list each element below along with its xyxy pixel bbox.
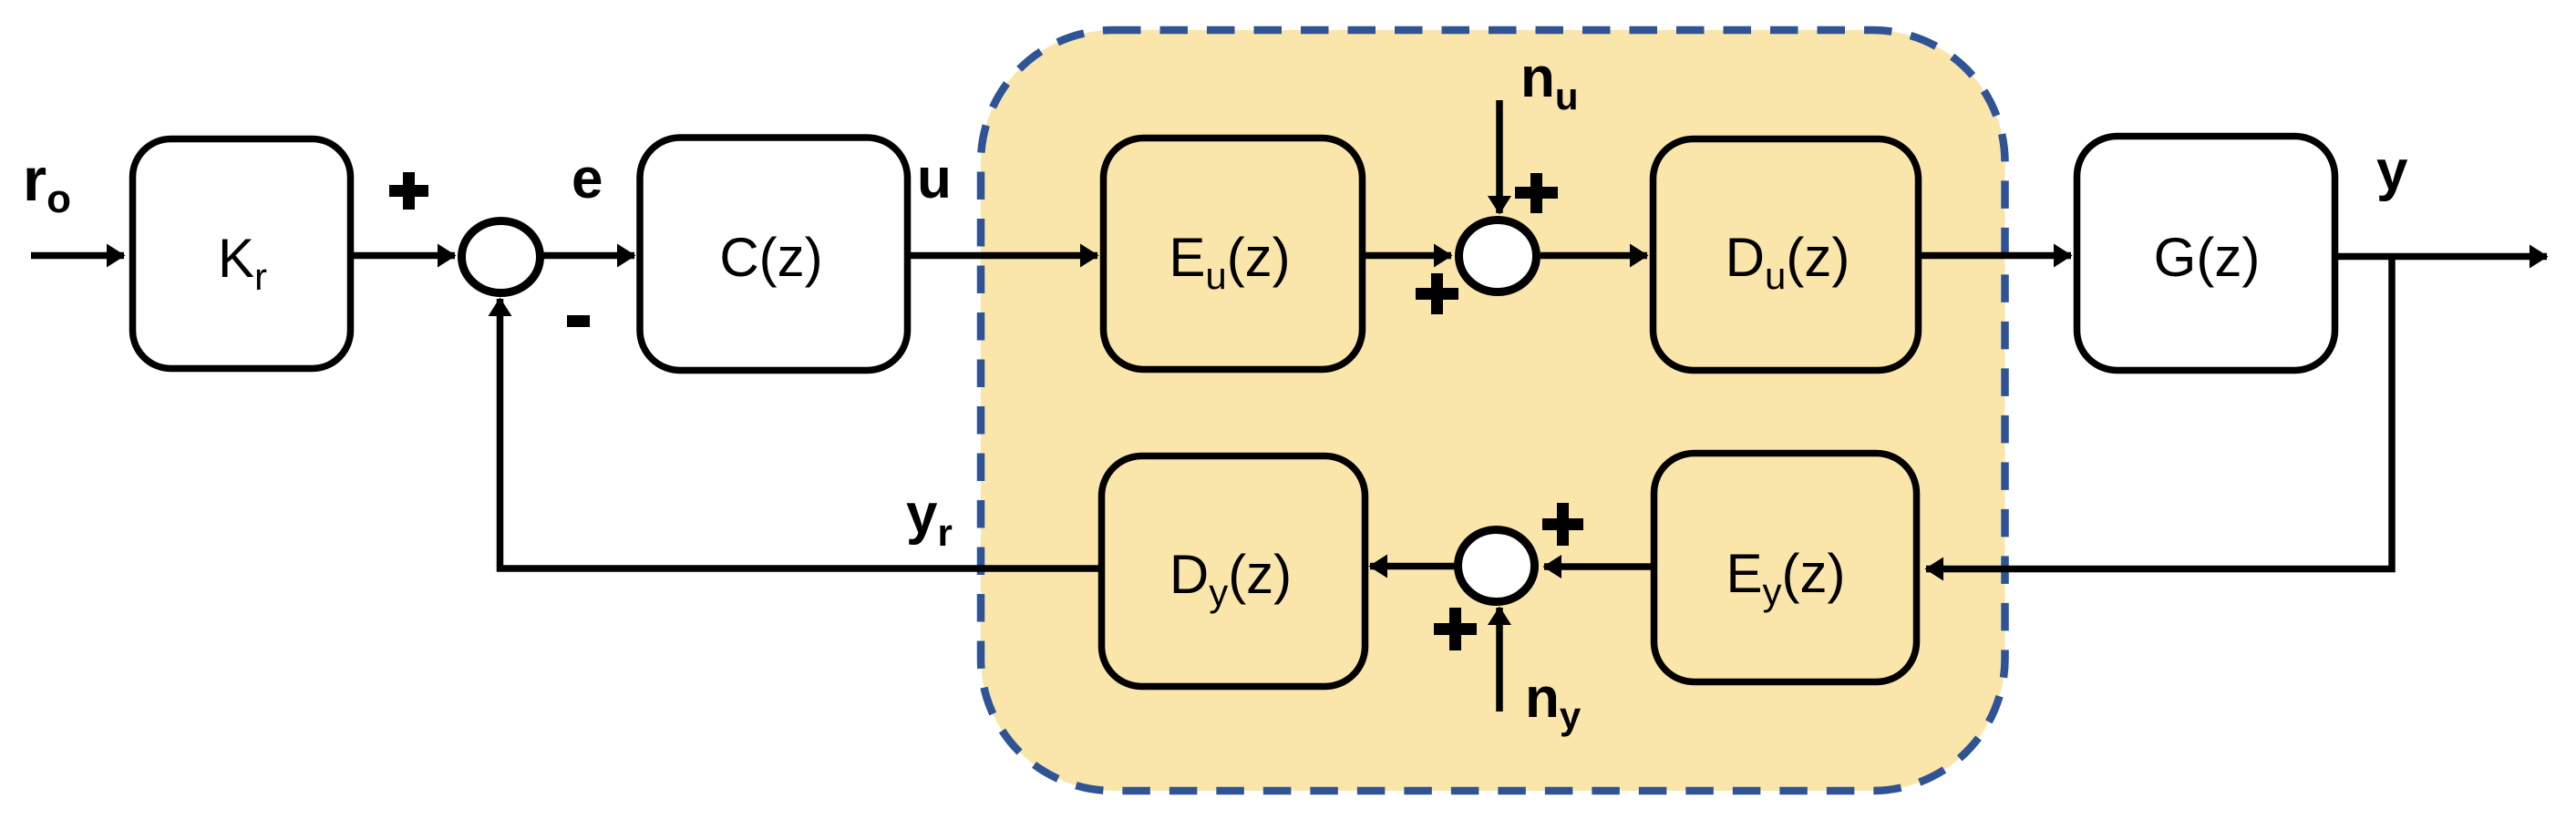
block Ey(z) xyxy=(1654,454,1917,682)
wire: Eu(z) to summing junction S2 xyxy=(1365,252,1451,260)
dashed highlighted region (quantizer/noise block) xyxy=(981,30,2005,791)
summing junction S3 xyxy=(1458,530,1535,602)
svg-text:Ey(z): Ey(z) xyxy=(1726,543,1846,613)
wire: Dy(z) feedback to S1 xyxy=(500,299,1102,568)
plus sign at S3 upper-right xyxy=(1542,503,1583,546)
block G(z) xyxy=(2077,137,2335,371)
wire: G(z) output to y xyxy=(2338,253,2547,261)
svg-text:Dy(z): Dy(z) xyxy=(1170,544,1292,614)
block Kr xyxy=(133,139,351,369)
svg-text:G(z): G(z) xyxy=(2154,227,2261,288)
block Eu(z) xyxy=(1104,138,1363,370)
wire: S3 to Dy(z) xyxy=(1370,563,1456,570)
svg-text:Eu(z): Eu(z) xyxy=(1169,227,1290,297)
block C(z) xyxy=(640,138,908,371)
svg-text:e: e xyxy=(572,148,603,210)
summing junction S2 xyxy=(1459,220,1537,292)
svg-text:C(z): C(z) xyxy=(719,227,822,288)
plus sign at S2 lower-left xyxy=(1416,273,1458,314)
svg-text:u: u xyxy=(917,148,952,210)
wire: S2 to Du(z) xyxy=(1540,252,1647,260)
plus sign at S1 xyxy=(389,172,428,210)
wire: branch down from y node to Ey(z) xyxy=(1926,257,2392,569)
plus sign at S3 lower-left xyxy=(1434,608,1477,650)
block Dy(z) xyxy=(1102,456,1365,687)
plus sign at S2 upper-right xyxy=(1515,173,1558,213)
wire: n_u arrow down into S2 xyxy=(1496,100,1503,213)
wire: n_y arrow up into S3 xyxy=(1496,608,1503,712)
svg-text:y: y xyxy=(2376,139,2408,202)
wire: Kr to summing junction S1 xyxy=(354,252,455,260)
svg-text:Du(z): Du(z) xyxy=(1726,227,1850,297)
wire: input arrow into Kr xyxy=(31,252,124,260)
wire: Du(z) to G(z) xyxy=(1922,252,2071,260)
block Du(z) xyxy=(1654,139,1919,371)
summing junction S1 xyxy=(462,221,541,293)
wire: S1 to C(z) xyxy=(541,252,634,260)
minus sign at S1 xyxy=(567,315,590,327)
wire: C(z) to Eu(z) xyxy=(911,252,1097,260)
wire: Ey(z) to summing junction S3 xyxy=(1544,563,1654,570)
